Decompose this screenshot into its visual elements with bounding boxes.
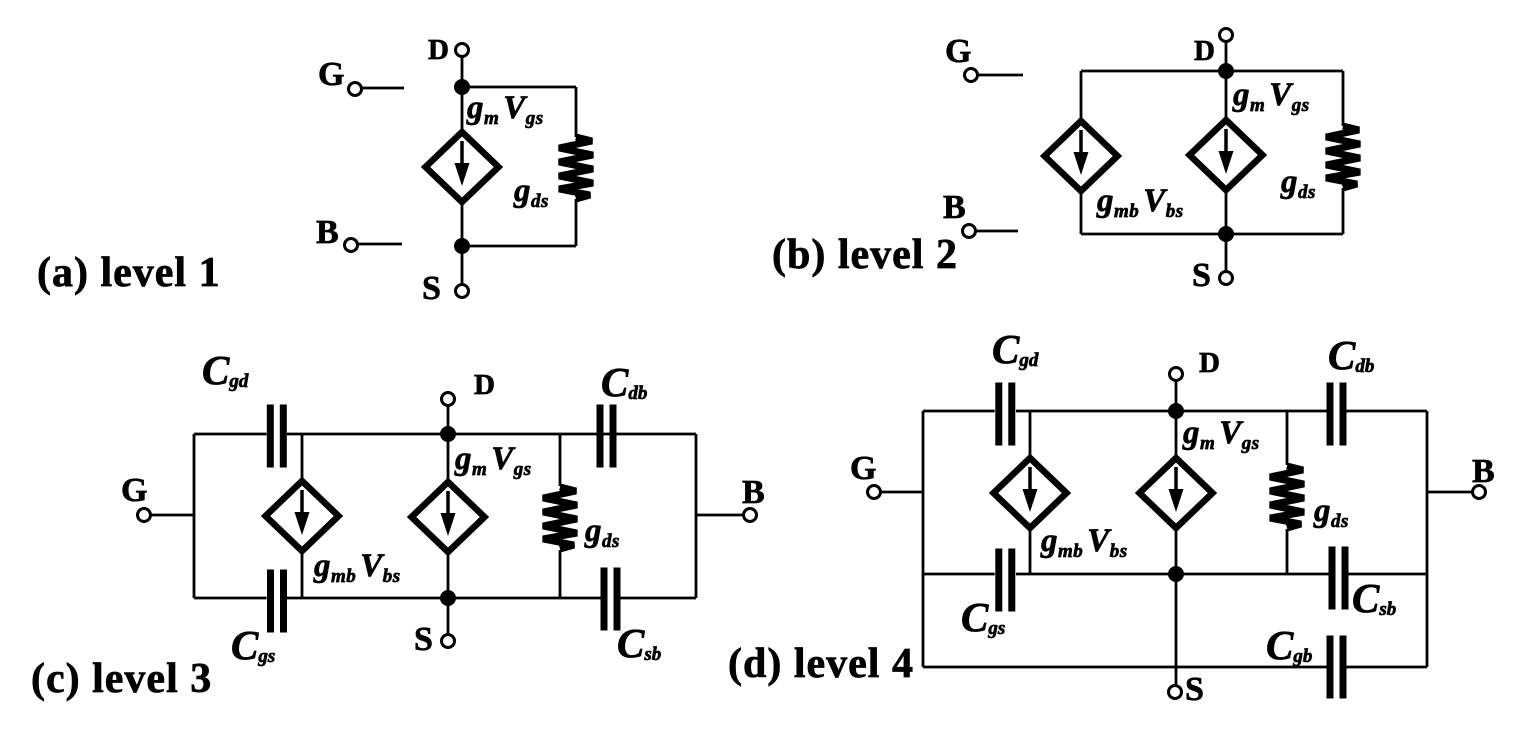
svg-text:B: B [943, 189, 966, 226]
svg-text:S: S [1185, 671, 1204, 708]
svg-text:D: D [428, 34, 449, 66]
svg-text:S: S [422, 270, 441, 307]
svg-text:G: G [945, 33, 971, 70]
svg-text:(d) level 4: (d) level 4 [728, 641, 914, 687]
svg-text:D: D [1194, 35, 1215, 67]
svg-text:(c) level 3: (c) level 3 [31, 656, 212, 702]
svg-text:S: S [414, 621, 433, 658]
svg-text:G: G [318, 56, 344, 93]
svg-text:G: G [850, 450, 876, 487]
svg-text:S: S [1192, 257, 1211, 294]
svg-text:B: B [1472, 453, 1495, 490]
svg-text:G: G [121, 472, 147, 509]
svg-text:B: B [316, 214, 339, 251]
svg-text:D: D [1199, 347, 1220, 379]
svg-text:B: B [742, 474, 765, 511]
svg-text:(b) level 2: (b) level 2 [772, 232, 958, 278]
svg-text:D: D [474, 369, 495, 401]
svg-text:(a) level 1: (a) level 1 [37, 250, 221, 296]
